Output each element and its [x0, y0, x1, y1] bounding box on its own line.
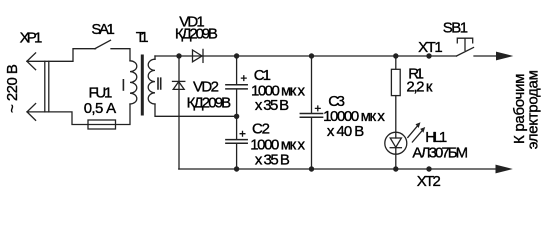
svg-text:Т1: Т1 — [136, 29, 149, 46]
svg-text:C2: C2 — [252, 120, 270, 137]
svg-text:FU1: FU1 — [89, 84, 113, 101]
svg-text:х 40 В: х 40 В — [327, 123, 364, 140]
svg-text:КД209В: КД209В — [175, 25, 218, 42]
svg-text:SA1: SA1 — [91, 21, 115, 38]
svg-text:SB1: SB1 — [443, 19, 468, 36]
svg-text:XT1: XT1 — [418, 39, 443, 56]
svg-text:КД209В: КД209В — [187, 94, 232, 111]
svg-text:АЛ307БМ: АЛ307БМ — [412, 145, 468, 162]
svg-text:2,2 к: 2,2 к — [406, 79, 432, 96]
svg-text:~ 220 В: ~ 220 В — [4, 64, 21, 113]
svg-text:VD2: VD2 — [193, 79, 219, 96]
svg-text:0,5 А: 0,5 А — [84, 100, 117, 117]
svg-text:XP1: XP1 — [20, 29, 43, 46]
svg-text:х 35 В: х 35 В — [255, 97, 289, 114]
svg-text:х 35 В: х 35 В — [255, 152, 290, 169]
svg-text:HL1: HL1 — [425, 129, 447, 146]
svg-text:XT2: XT2 — [417, 173, 441, 190]
svg-text:электродам: электродам — [525, 70, 542, 149]
